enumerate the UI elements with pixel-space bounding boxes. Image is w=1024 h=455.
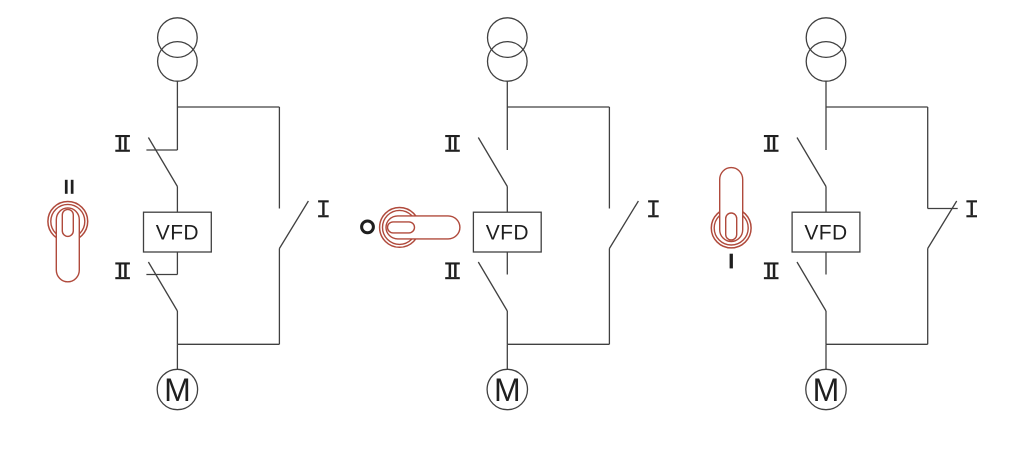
transformer T1 (158, 18, 198, 81)
switch contact I bypass circuit 3 (closed) (928, 201, 958, 249)
svg-text:M: M (494, 372, 521, 408)
switch contact I bypass circuit 1 (open) (279, 201, 308, 249)
label I bypass contact circuit 3 (966, 200, 977, 217)
wire VFD to lower contact circuit 3 (825, 252, 827, 275)
label I bypass contact circuit 2 (648, 200, 659, 217)
switch contact II upper circuit 3 (open) (797, 138, 826, 187)
wire contact to VFD circuit 3 (825, 187, 827, 213)
wire transformer T3 to contact (825, 81, 827, 150)
wire right branch down circuit 3 (927, 107, 929, 209)
wire to motor M3 (825, 344, 827, 369)
wire top branch node circuit 3 (826, 106, 928, 108)
wire bypass contact to bottom circuit 2 (608, 249, 610, 345)
label I bypass contact circuit 1 (318, 200, 329, 217)
wire lower contact to bottom node circuit 3 (825, 311, 827, 344)
svg-text:M: M (164, 372, 191, 408)
wire top branch node circuit 2 (507, 106, 609, 108)
switch contact II lower circuit 3 (open) (797, 262, 826, 311)
transformer T3 (806, 18, 846, 81)
VFD U3 (792, 212, 860, 252)
svg-text:VFD: VFD (804, 222, 847, 245)
label II lower contact circuit 1 (115, 262, 130, 279)
wire transformer T1 to contact (176, 81, 178, 150)
wire to motor M1 (176, 344, 178, 369)
selector switch S2 handle (position O, right) (380, 208, 460, 248)
label II lower contact circuit 3 (764, 262, 779, 279)
svg-text:M: M (813, 372, 840, 408)
svg-text:VFD: VFD (486, 222, 529, 245)
motor M2 (487, 369, 527, 409)
switch contact I bypass circuit 2 (open) (609, 201, 638, 249)
VFD U1 (144, 212, 212, 252)
wire bottom branch node circuit 3 (826, 343, 928, 345)
wire bottom branch node circuit 1 (177, 343, 279, 345)
label II lower contact circuit 2 (445, 262, 460, 279)
label II upper contact circuit 2 (445, 135, 460, 152)
label II upper contact circuit 1 (115, 135, 130, 152)
wire lower contact to bottom node circuit 2 (506, 311, 508, 344)
motor M3 (806, 369, 846, 409)
wire bottom branch node circuit 2 (507, 343, 609, 345)
motor M1 (157, 369, 197, 409)
selector switch S1 position II label (65, 180, 74, 194)
wire top branch node circuit 1 (177, 106, 279, 108)
wire VFD to lower contact circuit 2 (506, 252, 508, 275)
wire contact to VFD circuit 1 (176, 187, 178, 213)
switch contact II upper circuit 2 (open) (478, 138, 507, 187)
wire bypass contact to bottom circuit 3 (927, 249, 929, 345)
switch contact II upper circuit 1 (closed) (146, 138, 177, 187)
wire lower contact to bottom node circuit 1 (176, 311, 178, 344)
selector switch S3 position I label (730, 254, 733, 269)
label II upper contact circuit 3 (764, 135, 779, 152)
selector switch S1 handle (position II, down) (48, 202, 88, 282)
wire VFD to lower contact circuit 1 (176, 252, 178, 275)
wire right branch down circuit 2 (608, 107, 610, 209)
switch contact II lower circuit 1 (closed) (146, 262, 177, 311)
svg-text:VFD: VFD (156, 222, 199, 245)
selector switch S2 position O label (362, 221, 374, 233)
wire right branch down circuit 1 (278, 107, 280, 209)
VFD U2 (473, 212, 541, 252)
transformer T2 (488, 18, 528, 81)
wire transformer T2 to contact (506, 81, 508, 150)
selector switch S3 handle (position I, up) (711, 168, 751, 248)
wire contact to VFD circuit 2 (506, 187, 508, 213)
wire to motor M2 (506, 344, 508, 369)
wire bypass contact to bottom circuit 1 (278, 249, 280, 345)
switch contact II lower circuit 2 (open) (478, 262, 507, 311)
